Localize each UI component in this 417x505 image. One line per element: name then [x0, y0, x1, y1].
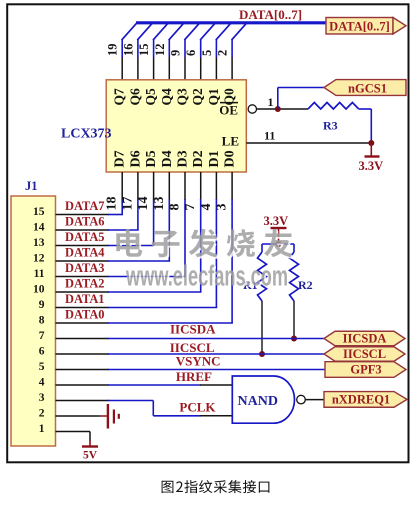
svg-text:11: 11: [34, 268, 45, 280]
svg-text:DATA3: DATA3: [65, 260, 105, 275]
svg-text:10: 10: [33, 283, 45, 295]
svg-text:DATA1: DATA1: [65, 291, 105, 306]
svg-text:Q7: Q7: [112, 88, 127, 106]
svg-text:7: 7: [39, 330, 45, 342]
svg-text:VSYNC: VSYNC: [176, 354, 221, 369]
svg-text:12: 12: [33, 252, 45, 264]
svg-text:6: 6: [39, 345, 45, 357]
svg-text:DATA[0..7]: DATA[0..7]: [329, 20, 390, 34]
svg-text:Q5: Q5: [143, 88, 158, 106]
svg-text:D0: D0: [223, 150, 238, 167]
svg-text:6: 6: [184, 50, 198, 56]
svg-text:Q4: Q4: [159, 88, 174, 106]
svg-text:HREF: HREF: [176, 369, 212, 384]
svg-text:J1: J1: [25, 179, 38, 193]
svg-text:3.3V: 3.3V: [264, 214, 289, 228]
svg-text:GPF3: GPF3: [350, 363, 381, 377]
svg-text:5: 5: [200, 50, 214, 56]
svg-text:DATA5: DATA5: [65, 229, 105, 244]
svg-text:8: 8: [39, 314, 45, 326]
svg-text:5V: 5V: [83, 450, 98, 462]
svg-text:19: 19: [106, 44, 120, 57]
svg-text:15: 15: [33, 206, 45, 218]
svg-text:9: 9: [169, 50, 183, 56]
svg-text:DATA4: DATA4: [65, 245, 105, 260]
svg-text:DATA2: DATA2: [65, 276, 105, 291]
svg-text:8: 8: [168, 204, 183, 211]
svg-text:4: 4: [39, 376, 45, 388]
svg-text:15: 15: [137, 44, 151, 57]
svg-text:14: 14: [136, 197, 151, 211]
svg-text:D7: D7: [113, 150, 128, 167]
svg-text:DATA7: DATA7: [65, 198, 105, 213]
svg-text:1: 1: [39, 423, 45, 435]
svg-text:2: 2: [216, 50, 230, 56]
svg-text:NAND: NAND: [238, 394, 278, 409]
svg-text:11: 11: [264, 129, 275, 143]
svg-text:4: 4: [199, 204, 214, 211]
svg-text:D5: D5: [144, 150, 159, 167]
svg-text:IICSDA: IICSDA: [170, 322, 216, 337]
svg-text:5: 5: [39, 361, 45, 373]
svg-text:Q2: Q2: [190, 88, 205, 106]
svg-text:3.3V: 3.3V: [359, 159, 384, 173]
svg-text:Q3: Q3: [175, 88, 190, 106]
svg-text:IICSCL: IICSCL: [343, 347, 386, 361]
svg-text:R2: R2: [298, 278, 313, 292]
svg-text:1: 1: [268, 95, 274, 109]
svg-text:Q6: Q6: [127, 88, 142, 106]
svg-text:9: 9: [39, 299, 45, 311]
svg-text:OE: OE: [219, 103, 238, 118]
svg-text:D2: D2: [191, 150, 206, 167]
svg-text:3: 3: [39, 392, 45, 404]
svg-text:D1: D1: [207, 150, 222, 167]
svg-text:DATA0: DATA0: [65, 307, 105, 322]
svg-text:D6: D6: [128, 150, 143, 167]
svg-text:DATA6: DATA6: [65, 214, 105, 229]
svg-text:nGCS1: nGCS1: [348, 82, 387, 96]
svg-text:13: 13: [152, 197, 167, 211]
svg-text:D4: D4: [160, 150, 175, 167]
svg-text:13: 13: [33, 237, 45, 249]
svg-text:16: 16: [121, 44, 135, 57]
svg-text:2: 2: [39, 407, 45, 419]
svg-text:D3: D3: [176, 150, 191, 167]
svg-text:DATA[0..7]: DATA[0..7]: [239, 7, 302, 22]
svg-text:nXDREQ1: nXDREQ1: [332, 393, 390, 407]
svg-text:LE: LE: [222, 134, 239, 149]
svg-text:PCLK: PCLK: [179, 400, 216, 415]
svg-text:R3: R3: [323, 119, 338, 133]
svg-text:3: 3: [215, 204, 230, 211]
svg-text:14: 14: [33, 221, 45, 233]
svg-text:17: 17: [120, 197, 135, 211]
svg-text:www.elecfans.com: www.elecfans.com: [125, 261, 288, 293]
svg-text:18: 18: [105, 197, 120, 211]
svg-text:LCX373: LCX373: [61, 127, 112, 142]
svg-text:IICSDA: IICSDA: [343, 332, 387, 346]
svg-text:12: 12: [153, 44, 167, 57]
svg-text:7: 7: [183, 204, 198, 211]
